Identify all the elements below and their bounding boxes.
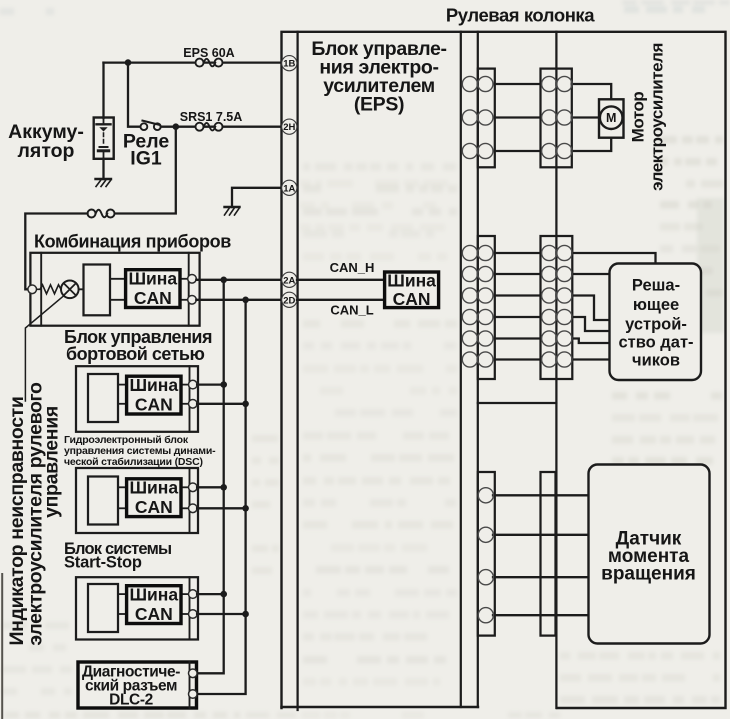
Шина CAN box (body network)	[127, 376, 181, 414]
resolver wire 2	[495, 273, 541, 275]
wire motor U	[495, 83, 541, 85]
DSC module box U3	[76, 468, 198, 533]
relay branch wire	[128, 63, 140, 127]
svg-text:1A: 1A	[283, 183, 295, 194]
Start-Stop module box U4	[76, 577, 198, 639]
Start-Stop module inner unit	[88, 584, 118, 632]
chain-link terminals B	[462, 245, 572, 367]
svg-text:CAN_L: CAN_L	[330, 303, 373, 318]
connector housing B2	[541, 236, 573, 379]
harness rail 2	[555, 32, 557, 708]
battery ground wire	[102, 159, 104, 179]
resolver wire 3	[495, 294, 541, 296]
svg-text:2A: 2A	[283, 275, 295, 286]
CAN bus 1 vertical	[197, 280, 224, 674]
ground (battery)	[96, 179, 112, 187]
wire into cluster	[25, 214, 87, 290]
cluster CAN wires	[110, 279, 189, 300]
svg-text:электроусилителя: электроусилителя	[648, 43, 667, 191]
svg-text:лятор: лятор	[18, 140, 75, 162]
Шина CAN (EPS)	[385, 272, 439, 308]
page edge shadow	[1, 573, 3, 719]
wire CAN_H tap + junction (DSC)	[197, 486, 224, 488]
svg-text:бортовой сетью: бортовой сетью	[66, 344, 204, 364]
cluster input terminal	[28, 285, 37, 294]
wire motor W	[495, 150, 541, 152]
ground near pin 1A	[232, 188, 281, 207]
wire CAN_L tap + junction (DSC)	[197, 507, 246, 509]
svg-text:CAN: CAN	[134, 288, 172, 308]
resolver wire 6	[495, 358, 541, 360]
Шина CAN (cluster)	[126, 270, 180, 308]
svg-text:М: М	[606, 111, 616, 125]
svg-text:IG1: IG1	[130, 148, 162, 170]
connector housing C1	[478, 472, 495, 636]
wire motor V	[495, 116, 541, 118]
svg-text:EPS 60A: EPS 60A	[183, 46, 234, 60]
Start-Stop module internal wires	[118, 594, 190, 614]
feed wire down to cluster	[114, 127, 176, 214]
DLC-2 terminal strip	[189, 662, 191, 708]
terminals (body network)	[189, 380, 198, 389]
DSC module internal wires	[118, 487, 190, 508]
wire to pin 1B	[104, 61, 282, 63]
svg-text:(EPS): (EPS)	[354, 94, 404, 116]
svg-text:устрой-: устрой-	[625, 316, 687, 334]
svg-text:SRS1 7.5A: SRS1 7.5A	[180, 110, 243, 124]
connector housing A2	[541, 69, 572, 168]
Шина CAN box (DSC)	[127, 479, 181, 517]
terminals C	[478, 488, 493, 623]
pin 1A	[282, 180, 297, 195]
junction dot	[125, 59, 132, 66]
Шина CAN box (Start-Stop)	[127, 586, 181, 624]
pin 2A	[282, 272, 297, 287]
svg-text:вращения: вращения	[601, 564, 696, 585]
EPS control unit box (Блок управления электроусилителем)	[298, 32, 461, 710]
fuse SRS1 7.5A	[196, 123, 223, 131]
wire to pin 2H	[161, 126, 281, 128]
resolver wire 5	[495, 337, 541, 339]
resolver box (Решающее устройство датчиков)	[610, 264, 702, 381]
CAN bus 2 vertical	[197, 300, 246, 694]
body network module box U2	[76, 366, 198, 432]
svg-text:DLC-2: DLC-2	[109, 692, 153, 709]
svg-text:ческой стабилизации (DSC): ческой стабилизации (DSC)	[64, 456, 203, 468]
fuse EPS 60A	[196, 59, 223, 67]
battery (Аккумулятор)	[94, 118, 114, 159]
torque sensor wire 3	[493, 576, 587, 578]
DSC module inner unit	[88, 477, 118, 525]
terminals (Start-Stop)	[189, 590, 198, 599]
lamp pointer line	[25, 296, 64, 402]
svg-text:чиков: чиков	[632, 352, 680, 370]
torque sensor box (Датчик момента вращения)	[589, 465, 710, 644]
svg-text:Мотор: Мотор	[629, 92, 648, 143]
resolver wire 4	[495, 316, 541, 318]
connector housing B1	[478, 236, 495, 379]
cluster output terminals	[188, 275, 197, 284]
CAN_L wire	[297, 299, 385, 301]
resistor	[37, 285, 61, 294]
svg-text:Шина: Шина	[129, 478, 178, 498]
svg-text:CAN_H: CAN_H	[330, 260, 375, 275]
connector housing C2	[541, 472, 556, 636]
relay IG1 switch	[141, 121, 161, 130]
pin 2H	[282, 119, 297, 134]
svg-text:2D: 2D	[283, 295, 295, 306]
torque sensor wire 2	[493, 534, 587, 536]
wire CAN_H tap + junction (Start-Stop)	[197, 593, 224, 595]
CAN_H wire	[297, 279, 385, 281]
svg-text:CAN: CAN	[393, 289, 431, 309]
pin 1B	[282, 56, 297, 71]
vertical indicator label	[6, 382, 63, 646]
svg-text:Комбинация приборов: Комбинация приборов	[34, 232, 231, 252]
junction dot	[173, 123, 180, 130]
indicator lamp	[61, 281, 83, 299]
fuse (cluster feed)	[88, 210, 115, 218]
svg-text:1B: 1B	[283, 59, 295, 70]
svg-text:Шина: Шина	[128, 269, 177, 289]
svg-text:CAN: CAN	[135, 604, 173, 624]
rail tie wire	[478, 402, 557, 404]
steering column outer box (Рулевая колонка)	[282, 32, 726, 708]
svg-text:Рулевая колонка: Рулевая колонка	[446, 5, 595, 26]
pin 2D	[282, 292, 297, 307]
svg-text:ющее: ющее	[633, 296, 679, 314]
harness rail 1	[477, 32, 479, 707]
svg-text:ство дат-: ство дат-	[618, 334, 693, 352]
svg-text:Start-Stop: Start-Stop	[64, 554, 142, 572]
CAN_H wire to pin 2A	[196, 279, 281, 281]
connector housing A1	[478, 69, 495, 168]
svg-text:CAN: CAN	[135, 395, 173, 415]
svg-text:2H: 2H	[283, 122, 295, 133]
torque sensor wire 4	[493, 614, 587, 616]
cluster inner module	[84, 265, 111, 316]
wire CAN_H tap + junction	[197, 383, 224, 385]
DLC-2 connector box	[78, 662, 197, 708]
terminals (DLC-2)	[189, 669, 198, 678]
motor label (vertical)	[629, 43, 667, 191]
svg-text:Шина: Шина	[129, 585, 178, 605]
body network module internal wires	[118, 385, 190, 404]
svg-text:Шина: Шина	[387, 271, 436, 291]
CAN_L wire to pin 2D	[196, 299, 281, 301]
resolver wire 1	[495, 252, 541, 254]
svg-text:CAN: CAN	[135, 497, 173, 517]
terminals (DSC)	[189, 483, 198, 492]
chain-link terminals A	[462, 76, 572, 158]
svg-text:Реша-: Реша-	[632, 277, 680, 295]
cluster box	[30, 253, 199, 326]
wire CAN_L tap + junction (Start-Stop)	[197, 613, 246, 615]
battery feed wire	[102, 63, 104, 118]
body network module inner unit	[88, 374, 118, 422]
svg-text:Шина: Шина	[129, 375, 178, 395]
motor M	[599, 99, 624, 137]
svg-text:управления: управления	[41, 406, 63, 518]
torque sensor wire 1	[493, 494, 587, 496]
wire CAN_L tap + junction	[197, 403, 246, 405]
